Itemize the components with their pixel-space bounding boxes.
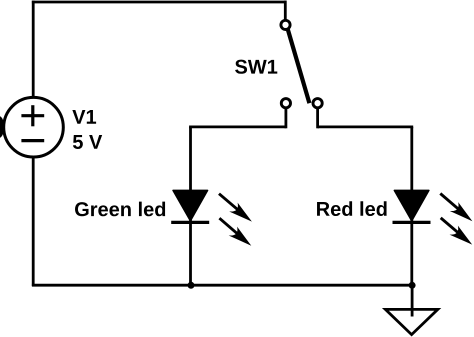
wire top horizontal (32, 1, 287, 4)
LED red emission arrow 2 (441, 218, 473, 245)
wire switch right throw stub (316, 109, 319, 129)
label SW1 (235, 60, 277, 74)
LED green (anode triangle and cathode bar) (171, 190, 209, 222)
ground (385, 309, 437, 334)
label V1 (72, 110, 96, 124)
label Green led (75, 202, 165, 217)
cropped mark at left edge (0, 116, 4, 138)
LED green emission arrow 1 (219, 194, 252, 222)
wire ground stub (411, 285, 414, 316)
wire bottom rail (32, 284, 412, 287)
label 5 V (73, 135, 102, 149)
junction green branch (188, 282, 195, 289)
junction red branch (409, 282, 416, 289)
wire left vertical (32, 1, 35, 98)
wire mid-right horizontal (318, 126, 414, 129)
label Red led (317, 201, 387, 216)
wire switch left throw stub (284, 109, 287, 129)
wire red branch vertical (410, 127, 413, 286)
wire mid-left horizontal (189, 126, 286, 129)
wire source bottom to rail (32, 157, 35, 286)
switch SW1 (281, 20, 322, 108)
LED red emission arrow 1 (440, 194, 472, 222)
LED green emission arrow 2 (219, 218, 251, 246)
voltage source V1 (4, 97, 64, 157)
LED red (anode triangle and cathode bar) (393, 190, 431, 222)
wire switch top stub (284, 1, 287, 20)
wire green branch vertical (189, 127, 192, 286)
